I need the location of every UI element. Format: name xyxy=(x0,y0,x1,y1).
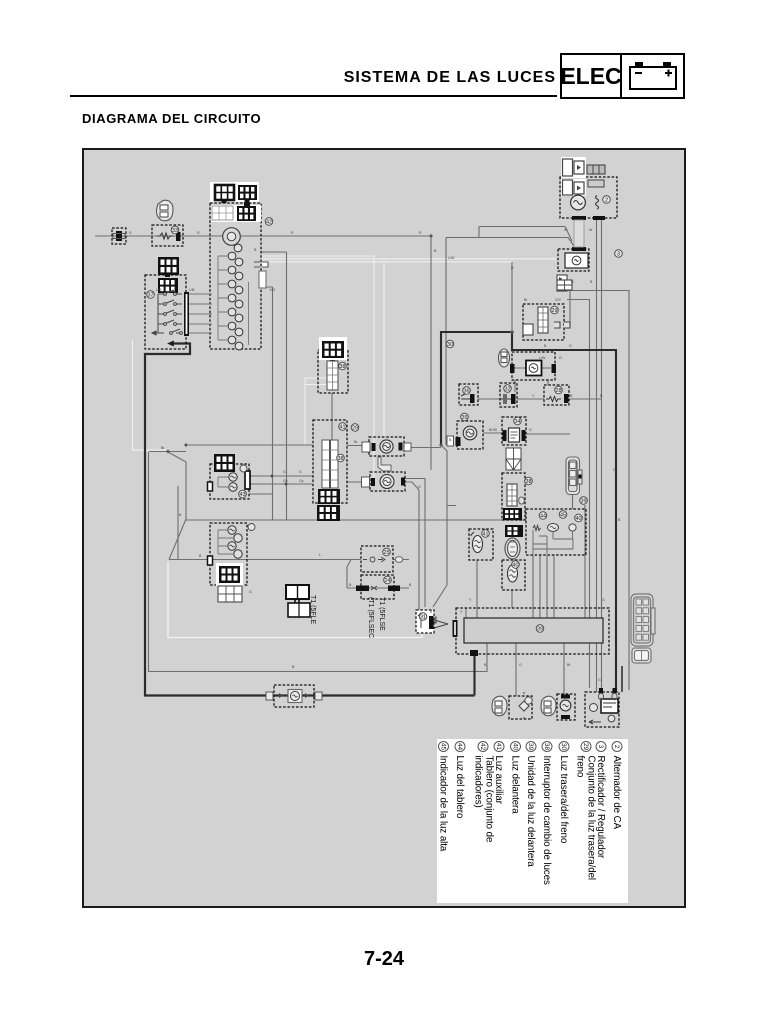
dashed box fuse L xyxy=(361,546,393,572)
alternator connector top xyxy=(561,157,605,178)
dashed box flasher P xyxy=(502,417,526,445)
wire aux row2b xyxy=(405,479,456,608)
fuse L symbols xyxy=(363,557,385,562)
svg-text:Interruptor de cambio de luces: Interruptor de cambio de luces xyxy=(541,756,552,886)
svg-text:25: 25 xyxy=(384,550,390,556)
svg-text:36: 36 xyxy=(464,389,470,395)
light switch contacts xyxy=(152,290,182,334)
headlight vertical connector xyxy=(566,457,582,495)
right big connector xyxy=(631,594,655,646)
wire flasher row xyxy=(433,433,570,607)
tail feed connector pair xyxy=(557,280,572,290)
svg-text:G: G xyxy=(418,485,421,489)
svg-text:34: 34 xyxy=(515,419,521,425)
dashed box aux bulb S xyxy=(469,529,493,560)
wire fuse row y559 xyxy=(169,560,409,589)
dashed box light switch D xyxy=(145,275,186,349)
svg-text:L: L xyxy=(319,553,321,557)
svg-text:40: 40 xyxy=(511,743,518,751)
connector grid G10 xyxy=(317,505,340,521)
svg-text:41: 41 xyxy=(483,532,489,538)
fuse H3 xyxy=(461,394,471,399)
svg-text:R: R xyxy=(419,231,422,235)
reflector pipe xyxy=(378,457,391,471)
connector grid G5 xyxy=(158,257,179,275)
svg-text:42: 42 xyxy=(266,220,272,226)
svg-text:Gy: Gy xyxy=(299,479,304,483)
svg-text:L/W: L/W xyxy=(539,356,546,360)
connector grid G12 xyxy=(216,563,243,586)
connector grid G2 xyxy=(238,185,257,200)
wire aux light down xyxy=(476,560,478,618)
K2 switch rect xyxy=(327,361,338,390)
wire taillight verticals xyxy=(466,608,564,696)
connector grid G1 xyxy=(158,182,605,656)
ignition switch 3d icon xyxy=(157,200,174,221)
ground square G20 xyxy=(470,650,478,656)
wire right harness 2b xyxy=(567,300,590,689)
wire color code labels (tiny) xyxy=(129,228,621,682)
svg-text:38: 38 xyxy=(543,743,550,751)
diagram background xyxy=(83,149,685,907)
dashed box fuse H3 xyxy=(459,384,478,405)
headlight unit body xyxy=(464,618,603,643)
dashed box dimmer switch Q xyxy=(502,473,525,520)
svg-text:24: 24 xyxy=(385,578,391,584)
wire thick ground bus left xyxy=(145,344,475,696)
svg-text:39: 39 xyxy=(537,627,543,633)
wire white inner frame xyxy=(168,562,422,638)
svg-text:G: G xyxy=(519,663,522,667)
svg-text:3: 3 xyxy=(617,252,620,258)
wire white main loop left xyxy=(133,340,167,450)
dashed box arrow AA xyxy=(416,610,434,633)
svg-text:R: R xyxy=(511,266,514,270)
wire meter to switch rows xyxy=(188,445,313,484)
wire thick v441 xyxy=(440,331,442,445)
harness ribbon xyxy=(574,220,584,247)
bottom-left inline fuse xyxy=(288,690,302,703)
svg-text:R: R xyxy=(571,280,574,284)
wire white vertical mid xyxy=(383,262,385,437)
svg-text:40: 40 xyxy=(513,563,519,569)
indicator bulbs E2 xyxy=(229,473,237,481)
svg-text:38: 38 xyxy=(338,456,344,462)
dashed box resistor H xyxy=(544,385,569,405)
dashed box headlight inner N xyxy=(526,509,586,555)
headlight shell oval xyxy=(505,538,520,559)
rectifier below connectors xyxy=(557,275,567,282)
dashed box tail feed F xyxy=(523,304,564,340)
dimmer switch white rect Q xyxy=(507,484,517,506)
connector grid G6 xyxy=(158,278,178,293)
svg-text:indicadores): indicadores) xyxy=(473,756,484,808)
lighting coil relay xyxy=(526,361,542,376)
dashed box headlight bulb R xyxy=(502,560,525,590)
connector grid G13 xyxy=(218,586,242,602)
dashed box aux row U xyxy=(370,472,405,491)
connector grid G4 xyxy=(237,206,256,221)
main switch pin in box A xyxy=(116,231,122,241)
dashed box meter assembly C xyxy=(210,203,261,349)
dashed box rectifier J xyxy=(558,249,589,271)
rotated connector labels xyxy=(309,595,385,638)
horn bulb xyxy=(463,426,477,440)
wire white top branch 2 xyxy=(262,258,556,260)
wire main feed top xyxy=(95,236,431,445)
wire right harness 2 xyxy=(601,218,603,692)
tail bulb xyxy=(560,700,571,711)
wire thick headlight ground xyxy=(473,655,475,696)
meter bulb column xyxy=(228,244,243,350)
dashed box dimmer K2 xyxy=(318,350,348,393)
tail 3d connector 2 xyxy=(541,696,556,716)
connector bar G7 xyxy=(184,292,189,336)
svg-text:G/Y: G/Y xyxy=(555,298,562,302)
svg-text:42: 42 xyxy=(479,743,486,751)
svg-text:G: G xyxy=(602,598,605,602)
svg-text:28: 28 xyxy=(556,388,562,394)
svg-text:35: 35 xyxy=(462,415,468,421)
svg-text:41: 41 xyxy=(340,425,346,431)
svg-text:45: 45 xyxy=(439,743,446,751)
wire meter feed vertical xyxy=(445,238,447,446)
bottom right rounded connector xyxy=(632,648,651,663)
white rect right edge of meter box xyxy=(259,271,266,288)
dashed box tail relay Z xyxy=(585,692,619,727)
svg-text:Gy: Gy xyxy=(283,479,288,483)
svg-text:40: 40 xyxy=(576,516,582,522)
svg-text:G: G xyxy=(249,590,252,594)
svg-text:L/B: L/B xyxy=(189,288,195,292)
svg-text:29: 29 xyxy=(552,308,558,314)
wire headlight bulb down xyxy=(511,590,513,608)
svg-text:G: G xyxy=(299,470,302,474)
tail 3d connector 1 xyxy=(492,696,507,716)
svg-text:30: 30 xyxy=(560,743,567,751)
wire alt short xyxy=(512,262,570,331)
fuse symbol in box B xyxy=(157,233,173,239)
dashed box lighting coil G xyxy=(512,352,555,380)
wire right harness 3 xyxy=(567,291,629,691)
svg-text:Br/W: Br/W xyxy=(489,428,498,432)
resistor H xyxy=(546,397,561,402)
K switch columns xyxy=(322,440,330,488)
wire long y520 xyxy=(186,519,526,521)
tail diamond xyxy=(519,701,529,711)
battery icon xyxy=(627,60,679,92)
arrows into unit xyxy=(432,617,448,628)
flasher relay body xyxy=(509,428,520,442)
connector grid G15 xyxy=(505,525,523,537)
svg-text:L/B: L/B xyxy=(156,288,162,292)
T1 5FLE connector pair xyxy=(286,585,310,617)
svg-text:Alternador de CA: Alternador de CA xyxy=(611,756,622,830)
svg-text:32: 32 xyxy=(505,387,511,393)
svg-text:43: 43 xyxy=(240,492,246,498)
dashed box indicator E2 xyxy=(210,464,249,499)
rectifier body xyxy=(565,253,588,268)
connector grid G14 xyxy=(503,508,522,520)
dashed box fuse M xyxy=(361,575,394,599)
svg-text:G: G xyxy=(529,428,532,432)
wire v178 xyxy=(177,486,179,559)
svg-text:Unidad de la luz delantera: Unidad de la luz delantera xyxy=(525,756,536,868)
aux light bulb U xyxy=(380,475,394,489)
svg-text:44: 44 xyxy=(456,743,463,751)
fuse M symbols xyxy=(356,586,369,592)
alternator bars G18 xyxy=(572,216,586,220)
svg-text:G: G xyxy=(283,470,286,474)
wire thick battery bus xyxy=(441,332,616,692)
connector grid G8 xyxy=(214,454,235,472)
svg-text:(T1 (5FLSEC: (T1 (5FLSEC xyxy=(367,597,374,638)
svg-text:T1 (5FLE: T1 (5FLE xyxy=(309,595,316,625)
dashed box tail resistor W xyxy=(274,685,314,707)
svg-text:30: 30 xyxy=(447,342,453,348)
horn side connector xyxy=(447,436,454,446)
3d oval connector left of G xyxy=(499,349,510,367)
tail relay unit xyxy=(601,699,618,713)
alternator connector inner xyxy=(561,179,604,196)
svg-text:39: 39 xyxy=(581,499,587,505)
tail switch right connectors xyxy=(554,322,570,328)
wire meter to lower boxes xyxy=(249,252,287,520)
svg-text:Conjunto de la luz trasera/del: Conjunto de la luz trasera/del xyxy=(586,756,597,881)
wire white top branch 3 xyxy=(262,261,512,263)
svg-text:44: 44 xyxy=(540,514,546,520)
connector grid G11 xyxy=(319,337,347,360)
alternator coil xyxy=(596,196,599,210)
svg-text:G: G xyxy=(569,344,572,348)
svg-text:Luz trasera/del freno: Luz trasera/del freno xyxy=(558,756,569,844)
svg-text:freno: freno xyxy=(575,756,586,778)
dashed box alternator I xyxy=(560,177,617,218)
dashed box tail diamond X xyxy=(509,696,532,719)
svg-text:39: 39 xyxy=(527,743,534,751)
dashed box main-switch small xyxy=(112,228,126,244)
svg-text:Luz del tablero: Luz del tablero xyxy=(454,756,465,819)
svg-text:W: W xyxy=(564,228,568,232)
dashed box handlebar switch K xyxy=(313,420,347,503)
wire right harness 1 xyxy=(596,218,598,692)
switch rows feed bar xyxy=(189,294,212,333)
connector grid G9 xyxy=(318,489,340,504)
dashed box horn O xyxy=(457,421,483,449)
svg-text:38: 38 xyxy=(340,364,346,370)
label legend white box xyxy=(437,739,628,903)
wire bottom gray L xyxy=(149,452,488,672)
svg-text:2: 2 xyxy=(613,745,620,749)
circled part numbers in diagram xyxy=(147,196,623,633)
svg-text:Luz delantera: Luz delantera xyxy=(510,756,521,815)
svg-text:Y/G: Y/G xyxy=(269,288,275,292)
svg-text:33: 33 xyxy=(172,228,178,234)
svg-text:45: 45 xyxy=(560,513,566,519)
grid tabs xyxy=(222,200,227,203)
svg-text:41: 41 xyxy=(495,743,502,751)
svg-text:Tablero (conjunto de: Tablero (conjunto de xyxy=(484,756,495,843)
wire y399 fuse row right xyxy=(478,398,601,400)
wire headlight inner verticals xyxy=(533,494,585,618)
meter table G3 xyxy=(211,205,261,222)
svg-text:R: R xyxy=(197,231,200,235)
wire Q feed xyxy=(430,445,432,470)
svg-text:G: G xyxy=(598,678,601,682)
svg-text:2: 2 xyxy=(605,198,608,204)
svg-text:Indicador de la luz alta: Indicador de la luz alta xyxy=(438,756,449,852)
svg-text:3: 3 xyxy=(597,745,604,749)
wire y445 to thick xyxy=(347,446,441,448)
dashed box indicator E3 xyxy=(210,523,247,585)
wire switch feed drop xyxy=(331,393,333,440)
dashed box fuse B xyxy=(152,225,183,246)
bracket connector right of meter xyxy=(254,262,268,267)
headlight bulb R xyxy=(508,565,518,582)
tail switch white rect xyxy=(538,307,548,333)
meter big circle xyxy=(223,228,241,246)
wire meter box stubs xyxy=(261,252,287,287)
svg-text:W: W xyxy=(589,228,593,232)
svg-text:L/W: L/W xyxy=(448,256,455,260)
dashed box tail bulb Y xyxy=(557,694,575,720)
svg-text:G: G xyxy=(613,468,616,472)
wire lighting coil links xyxy=(514,368,551,392)
meter bulb wires xyxy=(218,256,249,345)
junction diamonds xyxy=(166,234,514,486)
svg-text:G: G xyxy=(559,356,562,360)
svg-text:29: 29 xyxy=(582,743,589,751)
aux bulb S xyxy=(473,536,483,553)
svg-text:29: 29 xyxy=(352,426,358,432)
wire junction diagonals left xyxy=(149,452,351,560)
dimmer 2x2 grid xyxy=(506,448,521,470)
wire aux row2 xyxy=(347,482,419,610)
tail switch left box xyxy=(523,324,533,335)
wire thick relay pair xyxy=(621,666,623,692)
capacitor H2 xyxy=(500,398,513,400)
dashed box capacitor H2 xyxy=(500,383,517,407)
alternator symbol xyxy=(571,195,586,210)
dashed box aux row T xyxy=(369,437,404,456)
wire white into dimmer xyxy=(305,378,327,445)
svg-text:R: R xyxy=(291,231,294,235)
dashed box headlight unit V xyxy=(456,608,609,654)
svg-text:38: 38 xyxy=(526,479,532,485)
indicator bulbs E3 xyxy=(228,526,236,534)
svg-text:37: 37 xyxy=(148,293,154,299)
legend xyxy=(438,742,623,886)
wire rectifier feed xyxy=(446,227,575,248)
svg-text:31: 31 xyxy=(420,615,426,621)
svg-text:T1 (5FLSE: T1 (5FLSE xyxy=(378,597,385,631)
wire white top branch 1 xyxy=(262,256,374,481)
headlight N symbols xyxy=(533,526,541,531)
connector bar G19 xyxy=(453,620,458,637)
aux light bulb T xyxy=(380,440,393,453)
wire thick arrowhead xyxy=(168,341,174,346)
svg-text:R: R xyxy=(129,231,132,235)
